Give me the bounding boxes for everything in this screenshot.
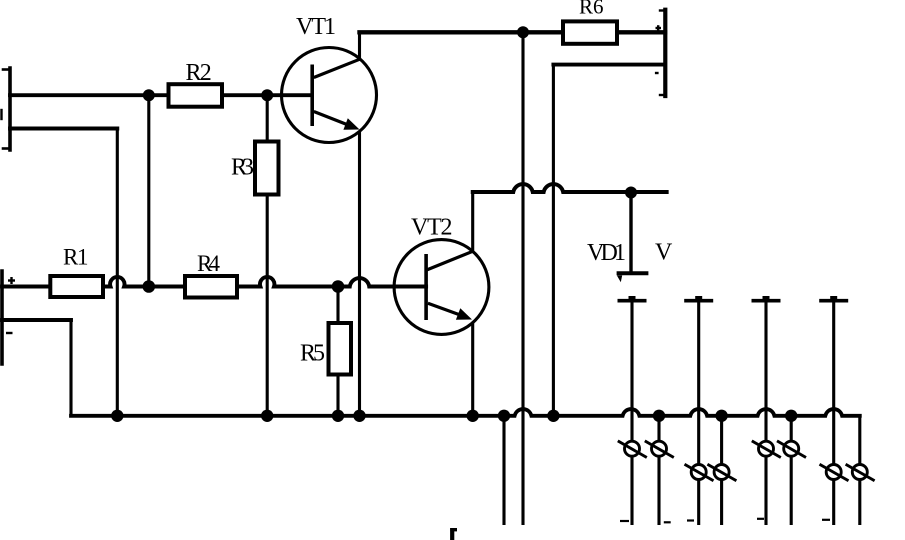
svg-text:VD1: VD1 xyxy=(587,240,626,266)
svg-text:R3: R3 xyxy=(231,155,254,181)
svg-text:R5: R5 xyxy=(300,341,325,367)
svg-text:VT2: VT2 xyxy=(411,215,453,241)
svg-text:R4: R4 xyxy=(197,251,221,276)
svg-text:R2: R2 xyxy=(186,60,212,86)
svg-text:R1: R1 xyxy=(63,245,89,270)
svg-text:R6: R6 xyxy=(579,0,604,19)
svg-text:V: V xyxy=(655,240,673,266)
svg-text:VT1: VT1 xyxy=(296,14,336,40)
